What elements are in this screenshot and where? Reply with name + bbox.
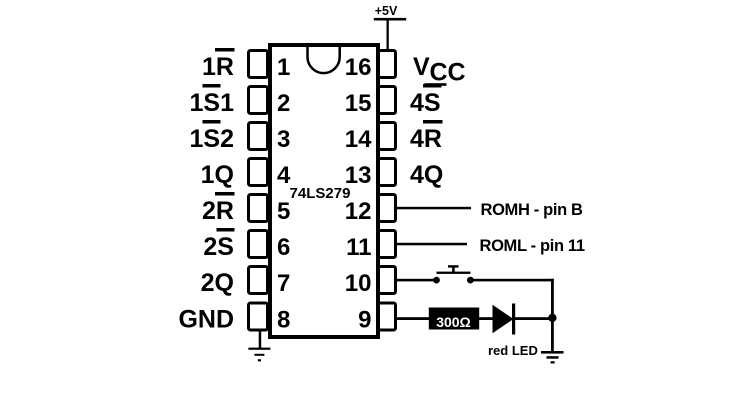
ground left	[248, 348, 270, 362]
wire pin 10 to switch	[397, 279, 437, 282]
svg-text:2S: 2S	[203, 233, 234, 261]
svg-text:2R: 2R	[202, 197, 234, 225]
label 2S pin 6	[203, 228, 234, 261]
ground right	[541, 351, 564, 364]
pin box 15	[379, 87, 396, 114]
pin box 1	[249, 51, 268, 78]
pin box 13	[379, 159, 396, 186]
pin box 11	[379, 231, 396, 258]
svg-text:CC: CC	[430, 59, 466, 87]
pin box 16	[379, 51, 396, 78]
svg-text:GND: GND	[178, 306, 234, 334]
svg-text:V: V	[413, 53, 430, 81]
svg-text:6: 6	[277, 234, 290, 261]
label VCC pin 16	[413, 53, 466, 87]
wire switch to corner	[470, 279, 554, 282]
svg-text:12: 12	[345, 198, 372, 225]
svg-text:1R: 1R	[202, 53, 234, 81]
diode D1 red LED	[493, 304, 516, 335]
svg-text:11: 11	[346, 234, 371, 261]
label 2R pin 5	[202, 192, 234, 225]
svg-text:13: 13	[345, 162, 372, 189]
pin box 8	[249, 303, 268, 330]
wire corner down to junction and ground	[551, 279, 554, 352]
label 1S1 pin 2	[190, 84, 235, 117]
svg-text:15: 15	[345, 90, 372, 117]
pushbutton S1	[433, 265, 474, 283]
svg-text:4: 4	[277, 162, 291, 189]
svg-text:10: 10	[345, 270, 372, 297]
svg-text:red LED: red LED	[488, 343, 538, 358]
IC notch	[308, 47, 340, 73]
svg-text:ROML - pin 11: ROML - pin 11	[480, 237, 585, 255]
svg-text:14: 14	[345, 126, 372, 153]
+5V rail bar	[374, 18, 406, 21]
pin box 2	[249, 87, 268, 114]
svg-text:+5V: +5V	[375, 4, 398, 18]
wire pin 12	[397, 207, 471, 210]
svg-text:5: 5	[277, 198, 290, 225]
svg-text:1S2: 1S2	[190, 125, 234, 153]
svg-text:1S1: 1S1	[190, 89, 235, 117]
svg-text:300Ω: 300Ω	[436, 314, 471, 330]
svg-text:16: 16	[345, 54, 372, 81]
wire diode to junction	[515, 317, 553, 320]
pin box 4	[249, 159, 268, 186]
pin box 12	[379, 195, 396, 222]
svg-text:2Q: 2Q	[201, 269, 234, 297]
pin box 7	[249, 267, 268, 294]
svg-text:9: 9	[358, 307, 371, 334]
svg-text:ROMH - pin B: ROMH - pin B	[481, 201, 584, 219]
svg-text:8: 8	[277, 307, 290, 334]
pin box 14	[379, 123, 396, 150]
op IC body U1	[270, 45, 378, 337]
wire pin 8 to ground	[259, 331, 262, 349]
svg-text:4R: 4R	[410, 125, 442, 153]
resistor R1 300 ohm	[429, 308, 479, 331]
pin box 9	[379, 303, 396, 330]
svg-text:74LS279: 74LS279	[290, 185, 351, 202]
label 1S2 pin 3	[190, 120, 234, 153]
svg-text:4S: 4S	[410, 89, 441, 117]
pin box 5	[249, 195, 268, 222]
wire +5V to pin 16	[387, 20, 389, 50]
wire resistor to diode	[479, 317, 494, 320]
svg-text:4Q: 4Q	[410, 161, 443, 189]
svg-text:7: 7	[277, 270, 290, 297]
wire pin 9 to resistor	[397, 317, 430, 320]
svg-text:1: 1	[277, 54, 290, 81]
svg-text:1Q: 1Q	[201, 161, 234, 189]
junction node	[548, 314, 556, 322]
label 1R pin 1	[202, 48, 234, 81]
label 4S pin 15	[410, 84, 442, 117]
wire pin 11	[397, 243, 467, 246]
svg-text:3: 3	[277, 126, 290, 153]
pin box 10	[379, 267, 396, 294]
pin box 6	[249, 231, 268, 258]
label 4R pin 14	[410, 120, 443, 153]
svg-text:2: 2	[277, 90, 290, 117]
pin box 3	[249, 123, 268, 150]
